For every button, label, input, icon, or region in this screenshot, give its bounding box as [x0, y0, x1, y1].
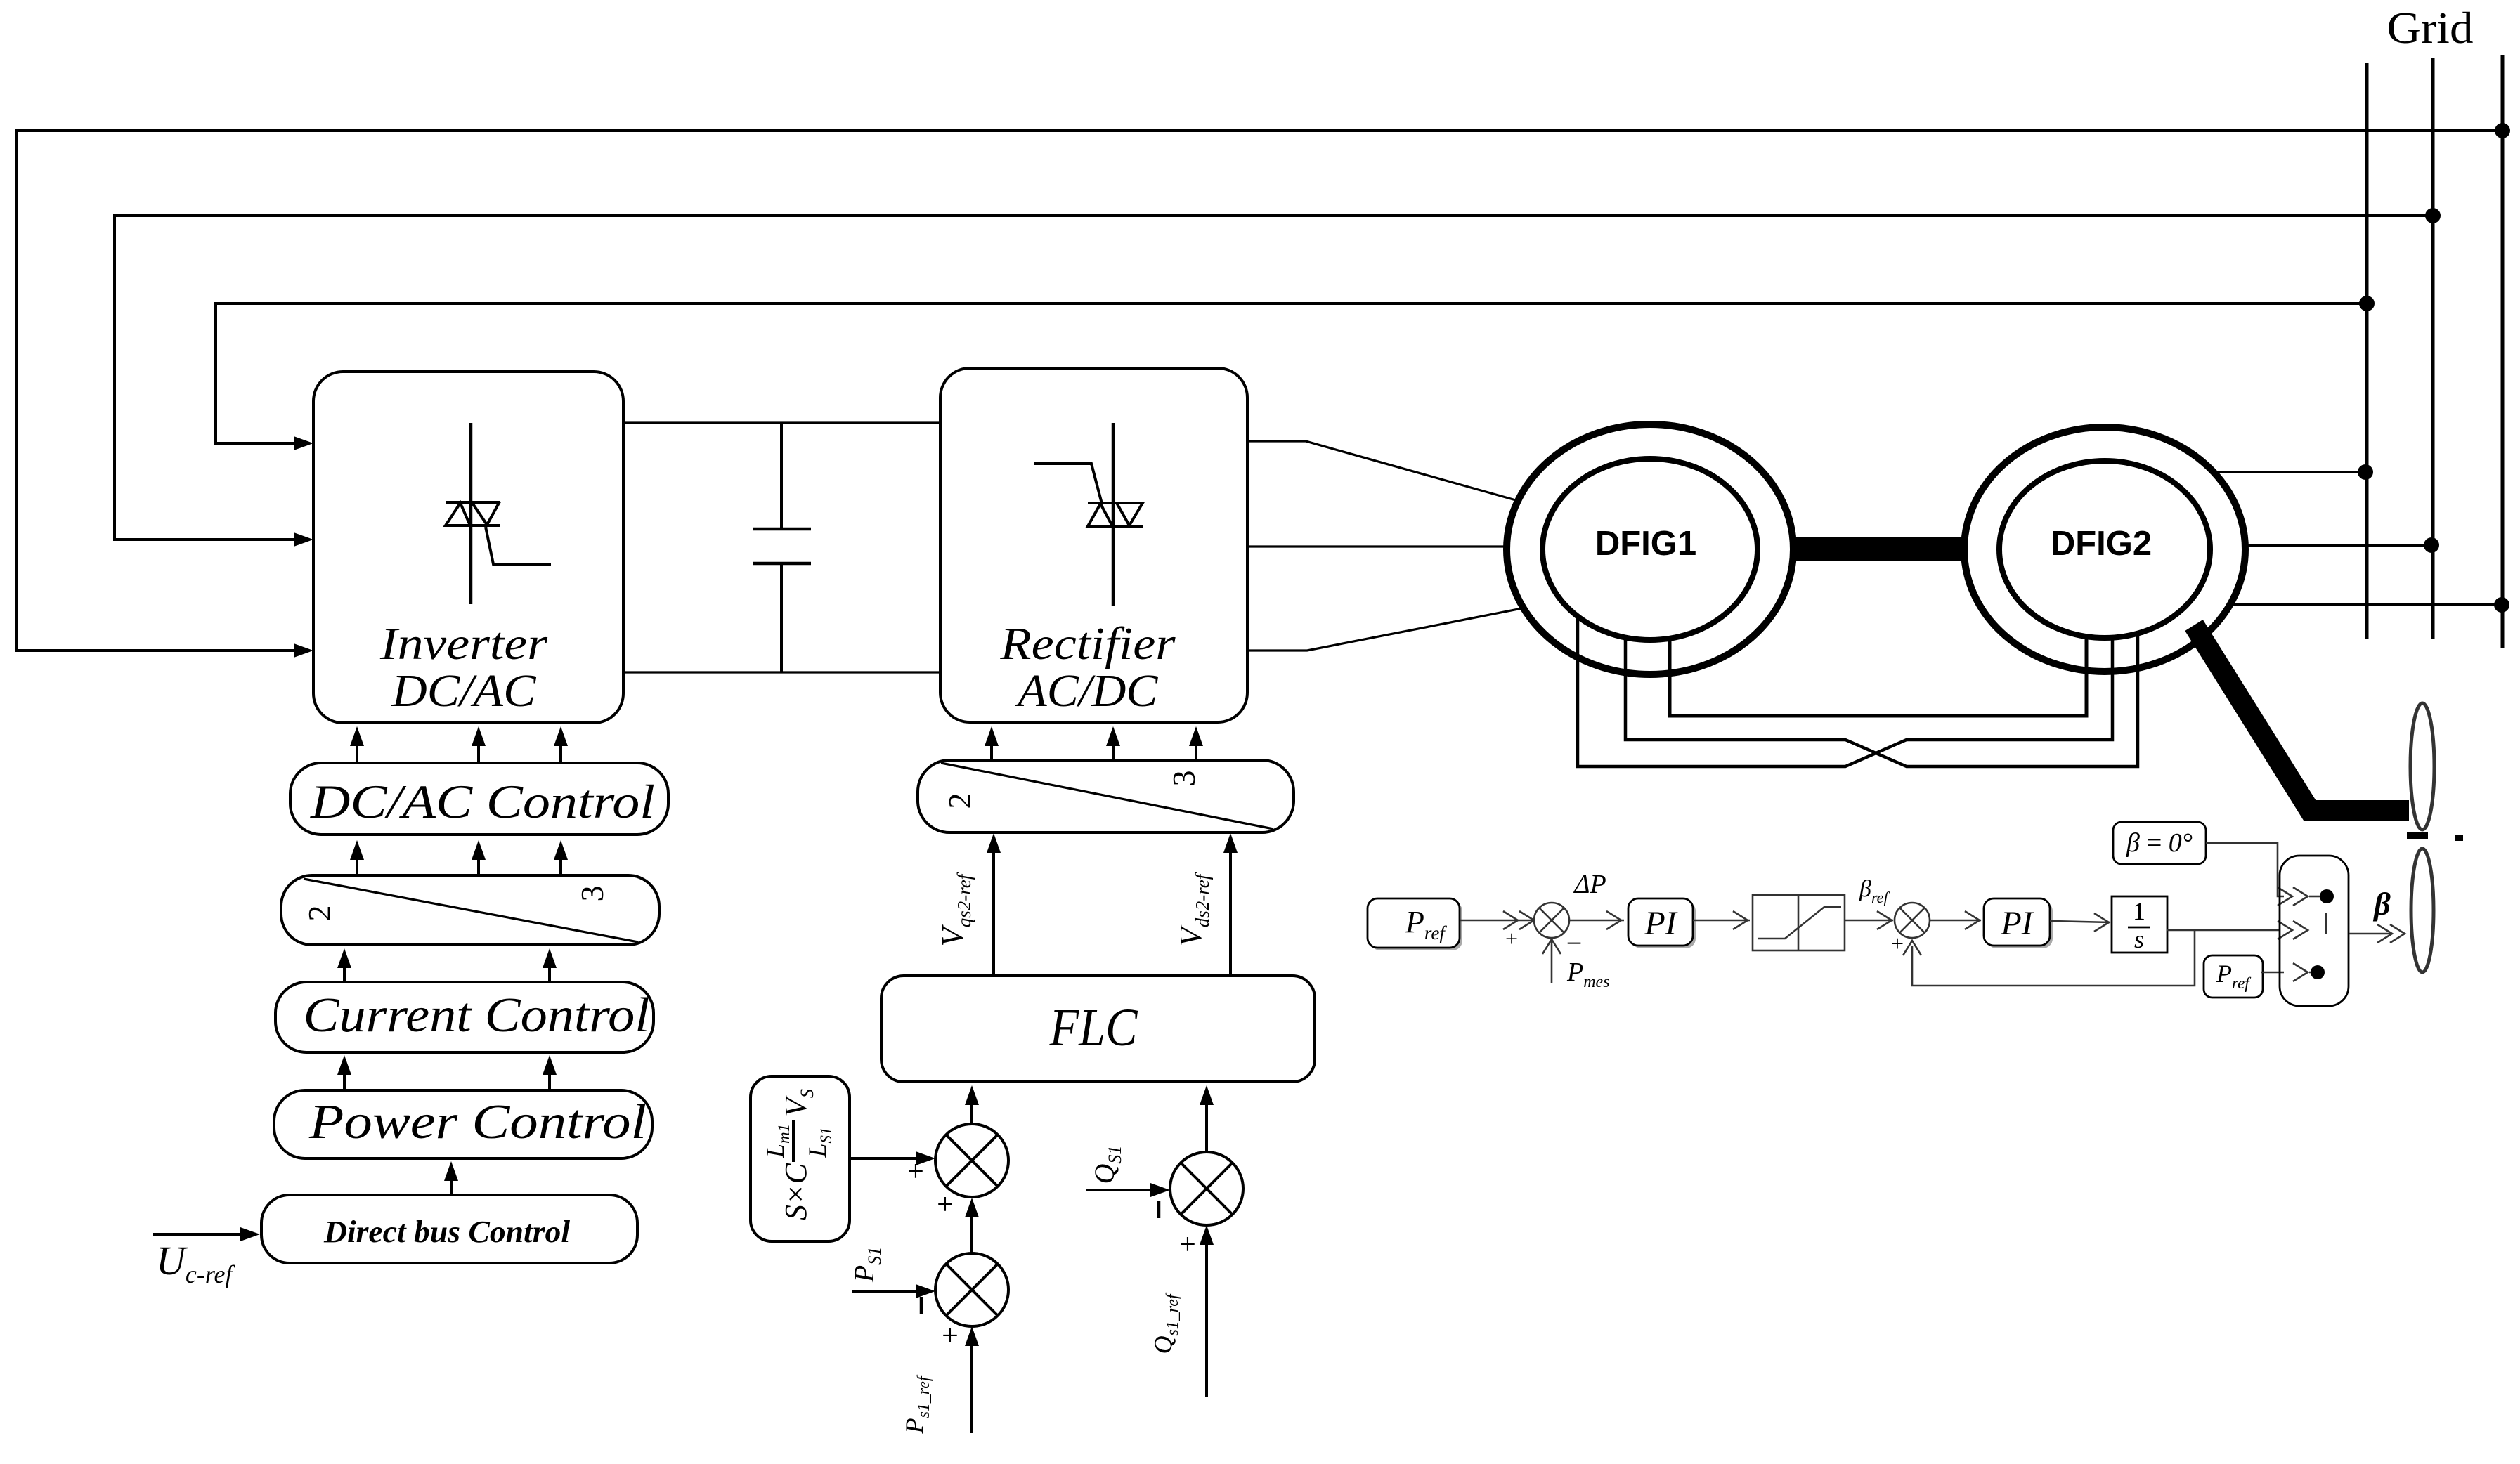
- svg-text:Inverter: Inverter: [379, 618, 547, 669]
- block transform 2/3 (inverter side): [281, 875, 659, 945]
- svg-text:s: s: [2134, 925, 2144, 953]
- block beta=0 source: [2113, 822, 2206, 864]
- capacitor C (DC link): [753, 423, 811, 672]
- arrows transform1 to DC/AC control: [350, 840, 568, 875]
- summing junction J3: [1170, 1152, 1243, 1225]
- block Direct bus Control: [261, 1195, 637, 1263]
- summing junction J5: [1895, 903, 1930, 938]
- svg-text:Grid: Grid: [2387, 3, 2474, 53]
- summing junction J4: [1534, 903, 1569, 938]
- summing junction J1: [935, 1124, 1008, 1197]
- wire DFIG2 stator phase a to grid: [2216, 471, 2365, 473]
- wire P_ref2 to switch: [2261, 972, 2284, 974]
- input Uc-ref: [153, 1233, 252, 1236]
- converter block U1 Inverter DC/AC: [313, 372, 623, 723]
- svg-text:AC/DC: AC/DC: [1015, 665, 1158, 717]
- summing junction J2: [935, 1253, 1008, 1326]
- svg-text:+: +: [1179, 1229, 1196, 1261]
- wire Vqs2-ref FLC to transform2: [992, 842, 995, 976]
- block integrator 1/s: [2112, 896, 2167, 953]
- arrows transform2 to rectifier: [985, 726, 1203, 760]
- wire rotor link C with crossover: [1578, 616, 2112, 766]
- block selector switch: [2280, 856, 2349, 1006]
- thyristor symbol inside inverter: [446, 423, 551, 604]
- shaft DFIG2 to wind turbine: [2194, 625, 2409, 811]
- wire J4 to PI1: [1569, 920, 1624, 922]
- sign minus J3 left: [1157, 1201, 1161, 1218]
- svg-text:DFIG2: DFIG2: [2051, 525, 2152, 563]
- wire J3 to FLC: [1205, 1094, 1208, 1152]
- block PI 2: [1987, 901, 2053, 948]
- node junction dot line3-busA: [2359, 296, 2375, 311]
- svg-text:+: +: [937, 1189, 954, 1221]
- svg-text:+: +: [1505, 926, 1518, 951]
- machine DFIG1: [1507, 424, 1793, 674]
- node dot stator b: [2424, 537, 2439, 553]
- wire PI2 to integrator: [2050, 921, 2110, 922]
- wind turbine blade bottom: [2411, 849, 2434, 972]
- node dot stator a: [2358, 464, 2373, 480]
- converter block U2 Rectifier AC/DC: [940, 368, 1247, 722]
- wire rectifier to DFIG1 phase b: [1247, 545, 1507, 547]
- node dot stator c: [2494, 597, 2509, 613]
- wire DFIG2 stator phase c to grid: [2230, 603, 2502, 606]
- wire Ps1 to J2: [852, 1290, 928, 1293]
- wire switch output beta: [2349, 933, 2392, 935]
- arrows DC/AC control to inverter: [350, 726, 568, 763]
- block transform 2/3 (rectifier side): [918, 760, 1294, 832]
- block P_ref source: [1370, 901, 1462, 950]
- svg-text:−: −: [1566, 927, 1583, 959]
- svg-text:S×C: S×C: [779, 1163, 813, 1220]
- wire Qs1_ref to J3: [1205, 1234, 1208, 1397]
- svg-text:1: 1: [2133, 897, 2145, 925]
- wire rectifier to DFIG1 phase a: [1247, 441, 1516, 500]
- grid bus line C: [2501, 55, 2505, 648]
- block FLC: [881, 976, 1315, 1082]
- wire feedback line 2 (grid phase B to inverter): [115, 216, 2433, 540]
- node junction dot line1-busC: [2495, 123, 2510, 138]
- block P_ref 2 source: [2204, 955, 2263, 998]
- wire P_mes to J4: [1551, 940, 1553, 983]
- block Current Control: [275, 982, 654, 1052]
- wire rotor link A (DFIG1 to DFIG2): [1670, 636, 2086, 716]
- machine DFIG2: [1964, 427, 2245, 672]
- arrow direct bus control to power control: [450, 1168, 453, 1195]
- wire integrator to switch: [2167, 929, 2280, 932]
- svg-text:3: 3: [574, 886, 610, 902]
- wire DC link top: [623, 421, 940, 424]
- svg-text:DC/AC Control: DC/AC Control: [310, 775, 655, 828]
- wire beta0 to switch: [2206, 843, 2284, 896]
- svg-text:+: +: [907, 1156, 924, 1188]
- wire P_ref to J4: [1460, 920, 1534, 922]
- svg-text:DFIG1: DFIG1: [1595, 525, 1696, 563]
- wire DC link bottom: [623, 671, 940, 673]
- svg-text:Current Control: Current Control: [304, 988, 650, 1043]
- wire saturation to J5: [1845, 920, 1893, 922]
- svg-text:2: 2: [942, 793, 978, 809]
- block PI 1: [1631, 901, 1696, 948]
- shaft DFIG1-DFIG2: [1793, 537, 1965, 561]
- svg-text:Power Control: Power Control: [308, 1095, 647, 1149]
- thyristor symbol inside rectifier: [1034, 423, 1143, 606]
- wire rectifier to DFIG1 phase c: [1247, 608, 1522, 651]
- grid bus line B: [2431, 58, 2435, 639]
- wire Ps1_ref to J2: [970, 1335, 973, 1433]
- svg-text:ΔP: ΔP: [1573, 870, 1606, 899]
- arrows power control to current control: [337, 1055, 557, 1090]
- wire DFIG2 stator phase b to grid: [2245, 544, 2431, 547]
- svg-text:3: 3: [1166, 771, 1202, 787]
- svg-text:Rectifier: Rectifier: [999, 618, 1175, 669]
- block S*C*Lm1/Ls1*Vs: [751, 1076, 850, 1241]
- wire Qs1 to J3: [1086, 1189, 1163, 1191]
- svg-text:DC/AC: DC/AC: [391, 665, 536, 717]
- wind turbine blade top: [2410, 703, 2434, 830]
- svg-text:2: 2: [301, 906, 337, 922]
- grid bus line A: [2365, 63, 2369, 639]
- node junction dot line2-busB: [2425, 208, 2441, 223]
- wire J2 to J1: [970, 1206, 973, 1253]
- block saturation: [1753, 895, 1845, 950]
- sign minus J2 left: [920, 1297, 923, 1314]
- wire feedback line 3 (grid phase C to inverter): [216, 303, 2367, 443]
- wire J5 to PI2: [1930, 920, 1981, 922]
- svg-text:PI: PI: [2000, 905, 2034, 942]
- wire Vds2-ref FLC to transform2: [1229, 842, 1232, 976]
- selector contact tick: [2325, 913, 2327, 934]
- wire J1 to FLC: [970, 1094, 973, 1124]
- wire SC block to J1: [850, 1157, 928, 1160]
- wire feedback line 1 (grid phase A to inverter): [16, 131, 2502, 651]
- wire rotor link B with crossover: [1625, 636, 2138, 766]
- svg-text:FLC: FLC: [1049, 998, 1138, 1057]
- svg-text:Direct bus Control: Direct bus Control: [323, 1215, 571, 1249]
- wire feedback integrator to J5: [1912, 930, 2195, 986]
- block DC/AC Control: [290, 763, 668, 835]
- switch top terminal dot: [2309, 896, 2320, 898]
- switch bottom terminal dot: [2309, 972, 2312, 974]
- svg-text:PI: PI: [1644, 905, 1677, 942]
- block Power Control: [274, 1090, 652, 1158]
- svg-text:+: +: [942, 1320, 959, 1352]
- arrows current control to transform1: [337, 948, 557, 982]
- turbine hub: [2407, 832, 2428, 839]
- wire PI1 to saturation: [1693, 920, 1750, 922]
- svg-text:β = 0°: β = 0°: [2126, 828, 2193, 858]
- small mark right of hub: [2455, 835, 2463, 841]
- svg-text:β: β: [2372, 886, 2391, 922]
